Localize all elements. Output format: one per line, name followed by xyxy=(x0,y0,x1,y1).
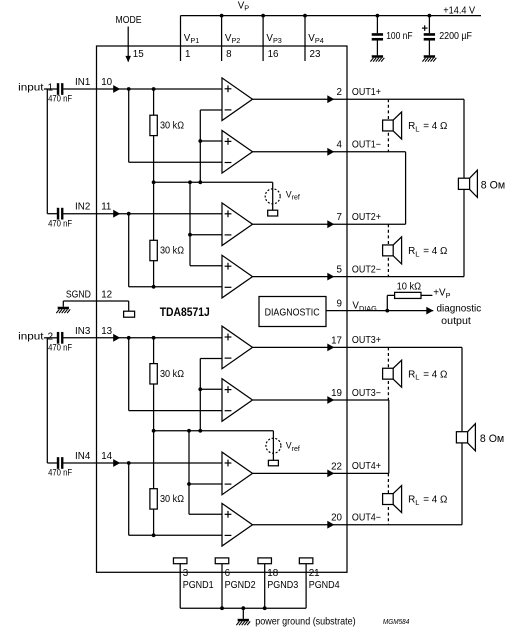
svg-text:1: 1 xyxy=(185,49,190,60)
svg-text:OUT1−: OUT1− xyxy=(352,140,381,151)
svg-text:5: 5 xyxy=(337,265,343,276)
svg-text:output: output xyxy=(441,316,471,327)
svg-text:IN4: IN4 xyxy=(75,451,91,462)
svg-text:12: 12 xyxy=(101,290,112,301)
svg-text:100 nF: 100 nF xyxy=(386,31,412,42)
svg-text:OUT1+: OUT1+ xyxy=(352,87,381,98)
svg-text:30 kΩ: 30 kΩ xyxy=(160,245,184,256)
svg-text:SGND: SGND xyxy=(66,290,91,301)
svg-text:OUT3+: OUT3+ xyxy=(352,335,381,346)
svg-text:OUT3−: OUT3− xyxy=(352,388,381,399)
svg-text:17: 17 xyxy=(331,335,342,346)
svg-text:OUT4+: OUT4+ xyxy=(352,461,381,472)
svg-text:PGND4: PGND4 xyxy=(309,580,340,591)
svg-text:10: 10 xyxy=(101,77,112,88)
svg-text:11: 11 xyxy=(101,202,111,213)
svg-text:21: 21 xyxy=(309,568,320,579)
svg-text:13: 13 xyxy=(101,326,112,337)
svg-text:MGM584: MGM584 xyxy=(383,617,409,626)
svg-text:16: 16 xyxy=(268,49,279,60)
svg-text:2200 µF: 2200 µF xyxy=(439,31,472,42)
svg-text:19: 19 xyxy=(331,388,342,399)
svg-text:30 kΩ: 30 kΩ xyxy=(160,494,184,505)
svg-text:OUT2−: OUT2− xyxy=(352,264,381,275)
svg-text:4: 4 xyxy=(337,140,343,151)
svg-text:8 Ом: 8 Ом xyxy=(480,433,504,445)
svg-text:PGND1: PGND1 xyxy=(183,580,214,591)
svg-text:22: 22 xyxy=(331,461,342,472)
svg-text:= 4 Ω: = 4 Ω xyxy=(423,121,447,132)
svg-text:OUT4−: OUT4− xyxy=(352,513,381,524)
svg-text:= 4 Ω: = 4 Ω xyxy=(423,495,447,506)
svg-text:2: 2 xyxy=(337,87,342,98)
svg-text:470 nF: 470 nF xyxy=(48,93,72,104)
svg-text:470 nF: 470 nF xyxy=(48,342,72,353)
svg-text:18: 18 xyxy=(267,568,278,579)
svg-text:MODE: MODE xyxy=(116,15,142,26)
svg-text:= 4 Ω: = 4 Ω xyxy=(423,369,447,380)
svg-text:8 Ом: 8 Ом xyxy=(481,180,505,192)
svg-text:470 nF: 470 nF xyxy=(48,217,72,228)
svg-text:23: 23 xyxy=(310,49,321,60)
svg-text:IN3: IN3 xyxy=(75,326,91,337)
svg-text:input: input xyxy=(18,83,44,94)
svg-text:7: 7 xyxy=(337,212,342,223)
svg-text:8: 8 xyxy=(226,49,232,60)
svg-text:diagnostic: diagnostic xyxy=(437,304,482,315)
svg-text:input: input xyxy=(18,331,44,342)
svg-text:power ground (substrate): power ground (substrate) xyxy=(255,617,356,628)
svg-text:PGND3: PGND3 xyxy=(267,580,298,591)
svg-text:OUT2+: OUT2+ xyxy=(352,212,381,223)
svg-text:470 nF: 470 nF xyxy=(48,467,72,478)
svg-text:IN2: IN2 xyxy=(75,202,90,213)
svg-text:= 4 Ω: = 4 Ω xyxy=(423,246,447,257)
svg-text:14: 14 xyxy=(101,451,112,462)
svg-text:+14.4 V: +14.4 V xyxy=(443,6,475,17)
svg-text:3: 3 xyxy=(183,568,189,579)
svg-text:30 kΩ: 30 kΩ xyxy=(160,369,184,380)
svg-text:30 kΩ: 30 kΩ xyxy=(160,121,184,132)
svg-text:10 kΩ: 10 kΩ xyxy=(397,281,422,292)
svg-text:9: 9 xyxy=(337,299,342,310)
svg-text:DIAGNOSTIC: DIAGNOSTIC xyxy=(265,308,320,319)
svg-text:TDA8571J: TDA8571J xyxy=(160,305,210,319)
svg-text:20: 20 xyxy=(331,513,342,524)
svg-text:6: 6 xyxy=(225,568,231,579)
svg-text:PGND2: PGND2 xyxy=(225,580,256,591)
svg-text:15: 15 xyxy=(133,49,144,60)
svg-text:IN1: IN1 xyxy=(75,77,90,88)
